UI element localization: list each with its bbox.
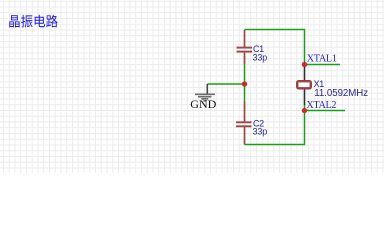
wire GND branch xyxy=(207,83,244,85)
svg-text:XTAL2: XTAL2 xyxy=(306,100,336,111)
capacitor C1 xyxy=(237,30,253,64)
junction XTAL1 node xyxy=(302,62,307,67)
capacitor C2 xyxy=(236,102,252,145)
wire bottom C2 to X1 xyxy=(245,111,305,145)
svg-text:GND: GND xyxy=(190,97,216,111)
wire junction to C2 xyxy=(244,84,246,102)
wire X1 pin2 to XTAL2 junction xyxy=(304,105,306,111)
svg-text:XTAL1: XTAL1 xyxy=(307,54,337,65)
crystal X1 xyxy=(297,65,311,105)
svg-text:11.0592MHz: 11.0592MHz xyxy=(314,88,368,99)
wire net XTAL1 stub xyxy=(305,64,341,66)
wire net XTAL2 stub xyxy=(305,110,346,112)
junction XTAL2 node xyxy=(302,108,307,113)
wire C1 bottom to junction xyxy=(244,64,246,85)
junction C1-C2-GND node xyxy=(242,81,247,86)
wire top C1 to X1 xyxy=(245,30,305,65)
svg-text:33p: 33p xyxy=(253,127,268,137)
power port GND xyxy=(195,84,215,101)
title 晶振电路 xyxy=(9,15,57,28)
svg-text:33p: 33p xyxy=(253,53,268,63)
